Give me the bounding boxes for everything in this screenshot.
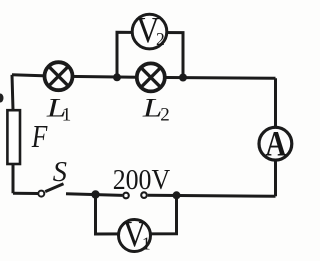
switch S blade — [45, 184, 63, 192]
voltmeter V1 — [119, 214, 151, 255]
lamp L2 — [137, 63, 165, 91]
node junction dot left (V1 branch) — [91, 190, 99, 198]
label L1 — [46, 93, 72, 126]
node junction dot right (V1 branch) — [173, 191, 181, 199]
svg-text:1: 1 — [62, 104, 72, 125]
wire right terminal to bottom-right corner — [148, 195, 276, 196]
node junction dot right of L2 — [179, 74, 187, 82]
label L2 — [142, 93, 170, 126]
ammeter A — [259, 123, 292, 163]
resistor F — [7, 110, 20, 164]
source terminal left — [123, 193, 129, 199]
switch S terminal circle — [38, 191, 44, 197]
svg-text:2: 2 — [160, 104, 170, 125]
wire right vertical — [274, 78, 277, 196]
wire V2 parallel branch — [117, 32, 183, 77]
scan artifact left edge — [0, 94, 4, 103]
source terminal right — [141, 192, 147, 198]
svg-text:A: A — [265, 123, 286, 163]
wire left vertical — [12, 75, 13, 194]
lamp L1 — [45, 62, 73, 90]
svg-text:200V: 200V — [113, 165, 171, 196]
wire V1 parallel branch — [96, 195, 177, 235]
svg-text:2: 2 — [156, 29, 165, 49]
svg-text:F: F — [31, 119, 48, 154]
voltmeter V2 — [132, 11, 167, 52]
svg-text:S: S — [53, 156, 68, 188]
wire bottom left segment — [13, 192, 38, 195]
wire switch to left terminal — [66, 194, 122, 196]
wire top horizontal — [12, 75, 276, 78]
svg-text:1: 1 — [142, 233, 151, 253]
node junction dot left of L2 — [113, 73, 121, 81]
